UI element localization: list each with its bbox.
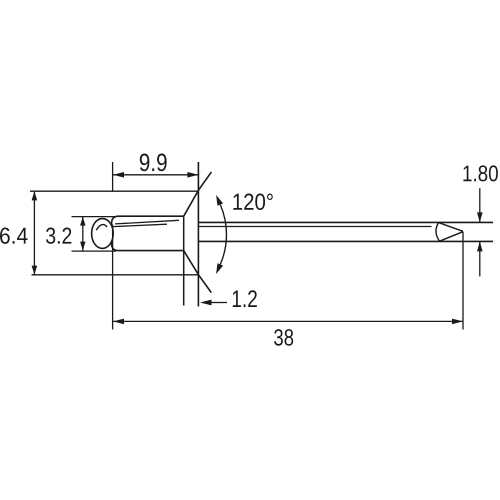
mandrel head ball: [92, 219, 114, 249]
label 6.4: [0, 228, 28, 244]
dim 3.2 extension bottom: [72, 250, 117, 252]
label 9.9: [140, 154, 167, 172]
dim 38 extension left: [112, 225, 114, 330]
mandrel tip cone bottom: [440, 232, 464, 242]
arrow 38 left: [113, 319, 124, 325]
dim 9.9 line: [113, 174, 198, 176]
dim 6.4 extension bottom: [32, 274, 199, 276]
arrow 6.4 down: [32, 266, 38, 275]
arrow 1.80 down: [477, 212, 483, 222]
dim 9.9 extension left: [112, 162, 114, 191]
arrow 9.9 left: [113, 172, 124, 178]
mandrel stem bottom edge: [198, 240, 493, 242]
ball highlight arc: [96, 225, 107, 231]
arrow 1.2: [200, 300, 212, 306]
arrow 3.2 up: [80, 217, 85, 226]
arrow arc bottom: [216, 263, 223, 274]
body spin line A: [115, 220, 179, 224]
arrow 6.4 up: [32, 191, 38, 200]
angle 120 arc: [220, 205, 226, 265]
label 38: [274, 329, 293, 346]
dim 6.4 extension top: [30, 190, 198, 192]
mandrel tip base arc: [436, 223, 440, 242]
dim 3.2 extension top: [72, 216, 116, 218]
head bottom slope with extension: [184, 251, 212, 293]
dim 38 extension right: [462, 232, 464, 330]
mandrel tip cone top: [439, 223, 464, 232]
label 1.80: [463, 165, 497, 181]
arrow arc top: [216, 195, 223, 206]
arrow 38 right: [452, 319, 463, 325]
dim 3.2 line: [82, 217, 84, 251]
head junction line: [183, 216, 185, 305]
dim 38 line: [113, 320, 463, 322]
body spin line B: [113, 224, 167, 226]
arrow 9.9 right: [187, 172, 198, 178]
label 1.2: [233, 290, 257, 307]
dim 1.80 arrow line top: [479, 188, 481, 222]
dim 1.2 leader: [211, 302, 227, 304]
dim 6.4 line: [33, 191, 35, 275]
mandrel stem top edge: [198, 221, 493, 223]
head top slope with extension: [184, 172, 212, 216]
arrow 3.2 down: [80, 242, 85, 251]
head face line: [197, 162, 199, 307]
dim 1.80 arrow line bottom: [479, 241, 481, 276]
label 120 deg: [233, 194, 272, 211]
arrow 1.80 up: [477, 241, 483, 251]
label 3.2: [46, 228, 71, 244]
mandrel stem inner line: [198, 226, 431, 228]
rivet body sleeve: [112, 216, 184, 250]
